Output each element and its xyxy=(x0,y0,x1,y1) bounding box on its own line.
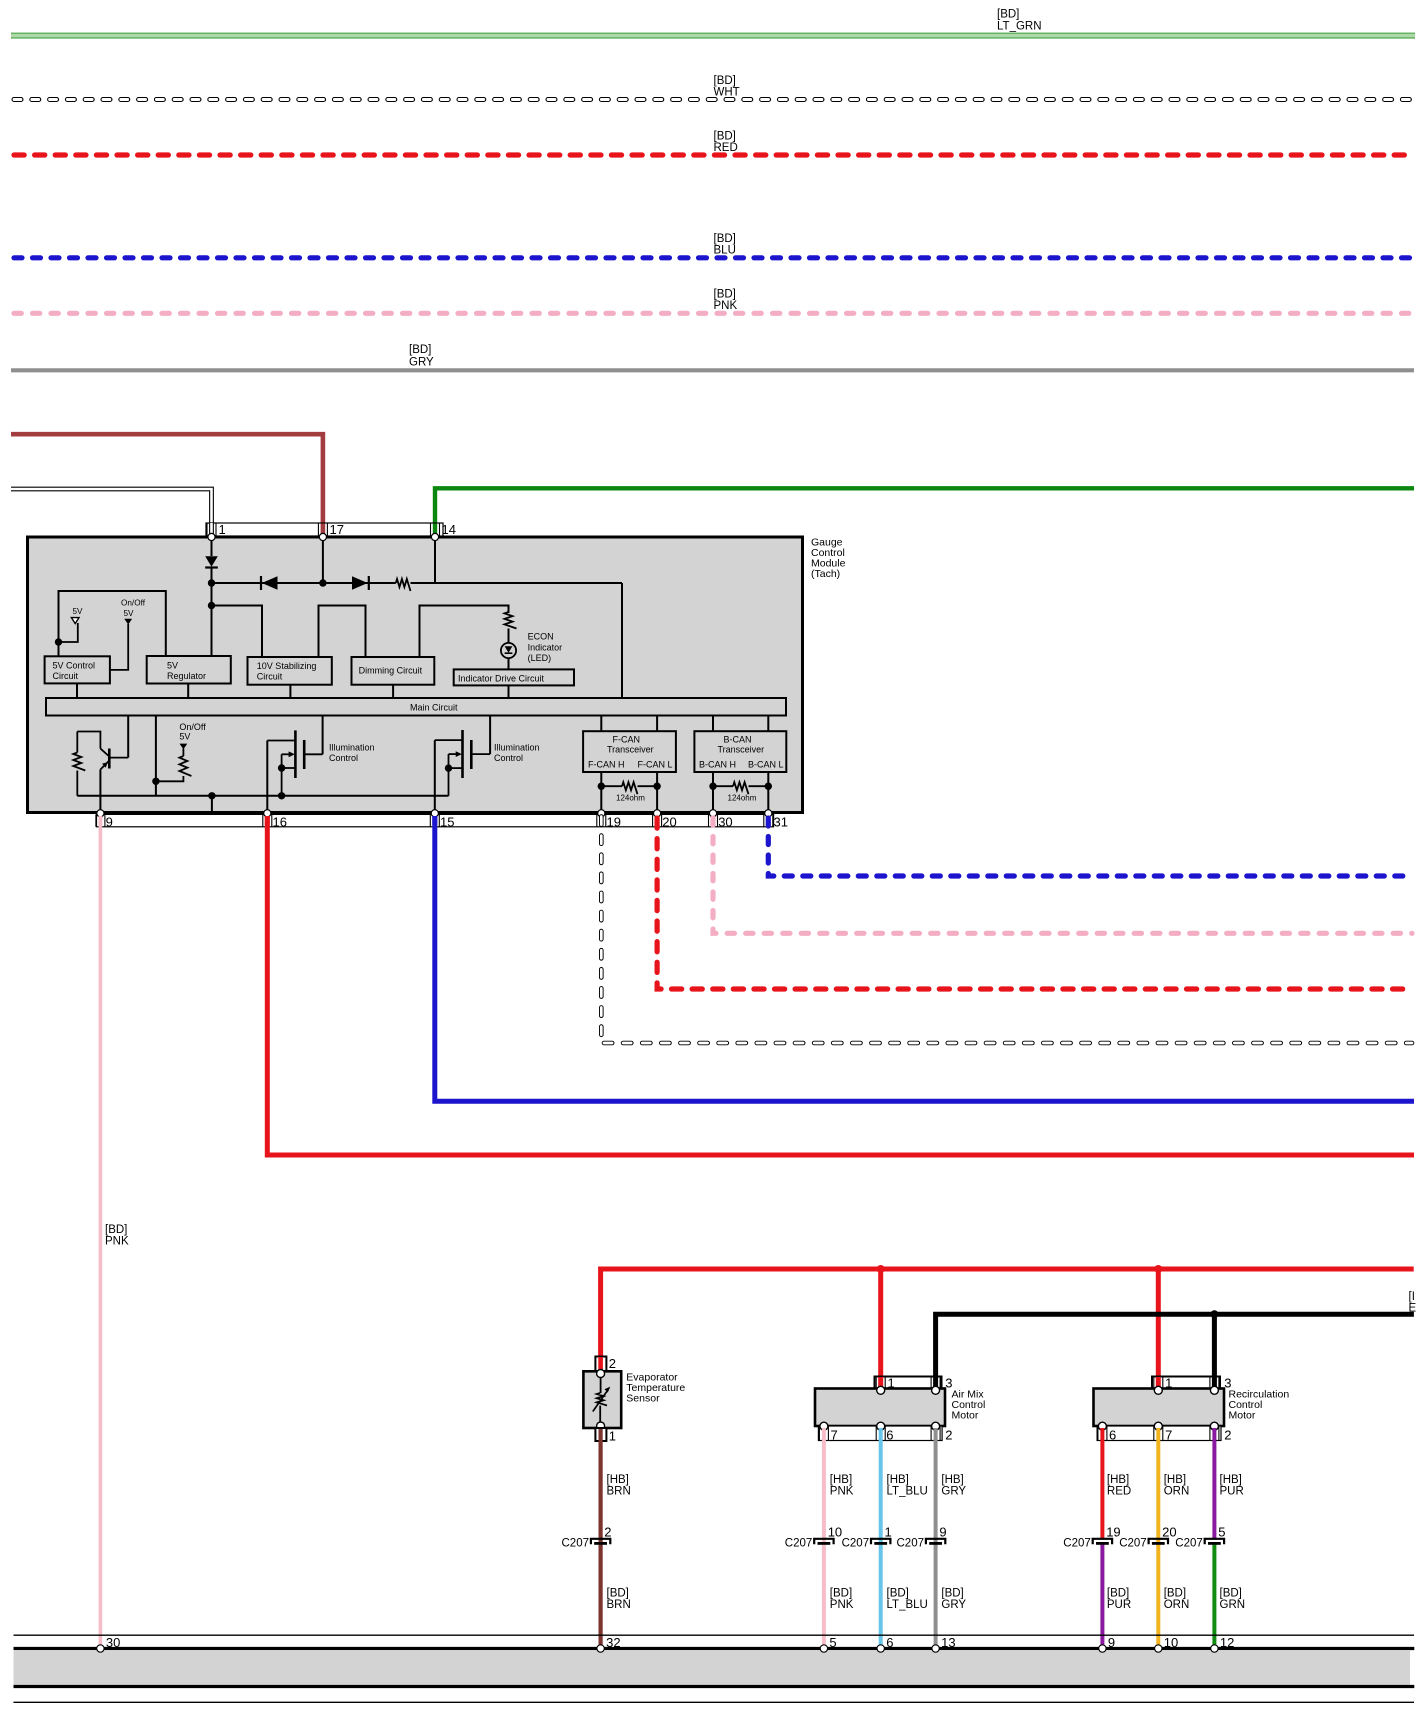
wire red stub pin16 xyxy=(265,816,270,825)
node [BD] PNK label2 xyxy=(830,1588,854,1612)
svg-text:Motor: Motor xyxy=(1229,1410,1256,1422)
wire B-CAN H to pin 30 xyxy=(712,772,714,813)
svg-text:[BD]: [BD] xyxy=(714,289,736,301)
box 10V Stabilizing Circuit xyxy=(248,657,332,685)
node [HB] GRY label xyxy=(941,1474,966,1498)
wire Q1 emitter to pin 9 xyxy=(99,770,101,814)
diode D2 pointing left xyxy=(261,576,278,590)
component Air Mix Control Motor box xyxy=(815,1389,945,1427)
svg-text:Control: Control xyxy=(329,753,358,763)
svg-text:[BD]: [BD] xyxy=(714,131,736,143)
svg-text:On/Off: On/Off xyxy=(179,722,206,732)
node Evaporator Temperature Sensor label xyxy=(626,1372,685,1405)
svg-text:30: 30 xyxy=(106,1635,120,1650)
connector bottom strip line xyxy=(14,1634,1415,1636)
node [BD] PUR label xyxy=(1107,1588,1131,1612)
module bottom AC unit bottom border xyxy=(14,1685,1415,1688)
wire [HB] RED recirculation pin 6 xyxy=(1100,1428,1104,1539)
svg-text:PNK: PNK xyxy=(714,300,738,312)
resistor 124ohm B-CAN xyxy=(709,782,772,802)
svg-text:[I: [I xyxy=(1409,1291,1415,1303)
wire pin 14 internal drop xyxy=(434,540,436,583)
svg-text:RED: RED xyxy=(1107,1486,1131,1498)
pin 30 circle and number xyxy=(709,810,732,830)
svg-text:[BD]: [BD] xyxy=(887,1588,909,1600)
svg-text:10: 10 xyxy=(828,1525,842,1540)
wire green stub pin 14 in band xyxy=(433,524,437,536)
svg-text:PNK: PNK xyxy=(830,1486,854,1498)
wire pin 17 internal drop xyxy=(322,540,324,583)
box Indicator Drive Circuit xyxy=(454,669,574,685)
node ECON Indicator (LED) label xyxy=(528,631,563,663)
svg-text:BLU: BLU xyxy=(714,245,736,257)
node clipped label right edge xyxy=(1409,1291,1417,1315)
svg-text:30: 30 xyxy=(718,814,732,829)
svg-text:10V Stabilizing: 10V Stabilizing xyxy=(257,661,317,671)
node junction dot pin1 chain xyxy=(208,579,215,586)
thermistor symbol xyxy=(593,1377,611,1422)
pin 9 circle and number xyxy=(97,810,113,830)
module bottom AC unit body xyxy=(14,1650,1411,1685)
transistor MOSFET M2 illumination xyxy=(435,716,490,814)
wire [HB] GRY air mix pin 2 xyxy=(934,1428,938,1647)
node [BD] WHT label xyxy=(714,75,740,99)
pin 16 circle and number xyxy=(264,810,287,830)
svg-text:Motor: Motor xyxy=(952,1410,979,1422)
wire pin1 to diode D1 xyxy=(211,540,213,556)
wire red from pin 16 to right edge xyxy=(267,816,1414,1155)
svg-text:Transceiver: Transceiver xyxy=(718,745,765,755)
pin 5 circle bottom bus xyxy=(820,1635,836,1652)
pin 13 circle bottom bus xyxy=(932,1635,956,1652)
node Illumination Control label 1 xyxy=(329,743,375,764)
svg-text:ORN: ORN xyxy=(1164,1599,1190,1611)
pin 30 circle bottom bus xyxy=(97,1635,121,1652)
connector C207 pin 10 xyxy=(785,1525,842,1550)
wire link Dimming to ECON resistor xyxy=(420,606,509,658)
wire F-CAN H to pin 19 xyxy=(600,772,602,813)
wire [BD] RED horizontal dashed xyxy=(14,152,1412,157)
svg-text:19: 19 xyxy=(607,814,621,829)
pin 19 circle and number xyxy=(598,810,621,830)
node [BD] ORN label xyxy=(1164,1588,1190,1612)
node [BD] LT_GRN label xyxy=(997,9,1042,33)
wire 5V control to main xyxy=(76,683,78,698)
wire branch to 10V stabilizing xyxy=(212,606,263,658)
box B-CAN Transceiver xyxy=(694,731,786,772)
svg-text:1: 1 xyxy=(609,1429,616,1444)
svg-text:B-CAN: B-CAN xyxy=(724,735,752,745)
svg-text:15: 15 xyxy=(440,814,454,829)
svg-text:1: 1 xyxy=(219,522,226,537)
svg-text:[BD]: [BD] xyxy=(714,233,736,245)
svg-text:B-CAN L: B-CAN L xyxy=(748,760,784,770)
pin 31 circle and number xyxy=(765,810,788,830)
svg-text:F-CAN L: F-CAN L xyxy=(638,760,673,770)
svg-text:2: 2 xyxy=(604,1525,611,1540)
connector C207 pin 2 xyxy=(562,1525,612,1550)
pin 32 circle bottom bus xyxy=(597,1635,621,1652)
node black bus junction recirculation xyxy=(1210,1310,1218,1388)
svg-text:[HB]: [HB] xyxy=(607,1474,629,1486)
wire maroon stub pin 17 in band xyxy=(321,524,326,536)
svg-text:BRN: BRN xyxy=(607,1486,631,1498)
svg-text:PNK: PNK xyxy=(830,1599,854,1611)
node junction dot pin17 chain xyxy=(319,579,326,586)
wire pink dashed from pin 30 xyxy=(713,818,1412,933)
pin circles recirculation bottom xyxy=(1098,1422,1218,1430)
svg-text:2: 2 xyxy=(609,1356,616,1371)
resistor R1 in diode chain xyxy=(396,579,411,591)
svg-text:LT_BLU: LT_BLU xyxy=(887,1486,928,1498)
wire main to B-CAN verticals xyxy=(713,716,768,732)
svg-text:LT_BLU: LT_BLU xyxy=(887,1599,928,1611)
svg-text:F-CAN: F-CAN xyxy=(613,735,641,745)
wire 5V regulator to main xyxy=(187,684,189,699)
transistor Q1 PNP xyxy=(100,716,128,770)
svg-text:LT_GRN: LT_GRN xyxy=(997,21,1042,33)
node [HB] LT_BLU label xyxy=(887,1474,928,1498)
resistor 124ohm F-CAN xyxy=(598,782,661,802)
node junction dot 5V control xyxy=(55,638,62,645)
wire maroon supply to pin 17 xyxy=(11,434,323,535)
wire 10V to main xyxy=(289,685,291,698)
svg-text:Circuit: Circuit xyxy=(53,671,79,681)
box Dimming Circuit xyxy=(352,657,435,685)
svg-text:13: 13 xyxy=(941,1635,955,1650)
svg-text:5: 5 xyxy=(1218,1525,1225,1540)
svg-text:124ohm: 124ohm xyxy=(728,793,757,802)
node [HB] PNK label xyxy=(830,1474,854,1498)
connector stub pin 1 evaporator xyxy=(595,1428,616,1444)
svg-text:9: 9 xyxy=(1108,1635,1115,1650)
connector top band recirculation pins 1 3 xyxy=(1152,1375,1232,1390)
pin 15 circle and number xyxy=(431,810,454,830)
svg-text:124ohm: 124ohm xyxy=(616,793,645,802)
node [BD] PNK label xyxy=(714,289,738,313)
LED ECON indicator symbol xyxy=(501,643,516,670)
pin circles evaporator xyxy=(597,1370,605,1431)
svg-text:31: 31 xyxy=(774,814,788,829)
svg-text:5V: 5V xyxy=(73,607,84,616)
svg-text:Regulator: Regulator xyxy=(167,671,206,681)
svg-text:C207: C207 xyxy=(785,1538,813,1550)
svg-text:20: 20 xyxy=(662,814,676,829)
node On/Off 5V label second with arrow xyxy=(179,722,206,756)
svg-text:7: 7 xyxy=(1165,1427,1172,1442)
node Recirculation Control Motor label xyxy=(1229,1389,1290,1422)
node Illumination Control label 2 xyxy=(494,743,540,764)
diode D1 down below pin 1 xyxy=(205,556,218,583)
svg-text:6: 6 xyxy=(1109,1427,1116,1442)
node [BD] GRY label xyxy=(409,344,434,369)
wire blue stub pin15 xyxy=(432,816,437,825)
node [BD] RED label xyxy=(714,131,738,155)
svg-text:2: 2 xyxy=(1224,1427,1231,1442)
connector top band air mix pins 1 3 xyxy=(875,1375,953,1390)
connector stub pin 2 evaporator xyxy=(595,1356,616,1371)
connector C207 pin 20 xyxy=(1119,1525,1176,1550)
node On/Off 5V label first with arrow xyxy=(110,599,146,670)
svg-text:9: 9 xyxy=(939,1525,946,1540)
svg-text:Dimming Circuit: Dimming Circuit xyxy=(359,665,423,675)
svg-text:GRY: GRY xyxy=(941,1599,966,1611)
svg-text:5: 5 xyxy=(829,1635,836,1650)
svg-text:2: 2 xyxy=(945,1427,952,1442)
box 5V Control Circuit xyxy=(45,656,110,683)
node [HB] ORN label xyxy=(1164,1474,1190,1498)
svg-text:6: 6 xyxy=(886,1635,893,1650)
wire indicator drive to main xyxy=(508,685,510,698)
wire pink stub pin9 xyxy=(99,816,103,825)
box F-CAN Transceiver xyxy=(583,731,676,772)
svg-text:17: 17 xyxy=(330,522,344,537)
node [HB] RED label xyxy=(1107,1474,1131,1498)
node junction dot x156 y781 xyxy=(152,778,159,785)
node 5V label with arrow xyxy=(59,607,84,642)
pin 20 circle and number xyxy=(654,810,677,830)
wire main to bias dot vertical xyxy=(155,716,157,796)
svg-text:[BD]: [BD] xyxy=(105,1224,127,1236)
svg-text:[BD]: [BD] xyxy=(1220,1588,1242,1600)
svg-text:C207: C207 xyxy=(1119,1538,1147,1550)
svg-text:[BD]: [BD] xyxy=(997,9,1019,21)
svg-text:B-CAN H: B-CAN H xyxy=(699,760,736,770)
svg-text:14: 14 xyxy=(442,522,456,537)
node junction dot M2 xyxy=(445,764,452,771)
connector bottom band pins 9 16 15 19 20 30 31 xyxy=(96,814,774,826)
wire F-CAN L to pin 20 xyxy=(656,772,658,813)
svg-text:Indicator: Indicator xyxy=(528,642,563,652)
wire B-CAN L to pin 31 xyxy=(767,772,769,813)
connector C207 pin 5 xyxy=(1175,1525,1225,1550)
svg-text:PUR: PUR xyxy=(1220,1486,1244,1498)
svg-text:32: 32 xyxy=(606,1635,620,1650)
wire black feed bus bottom xyxy=(936,1314,1414,1388)
wire white dashed from pin 19 xyxy=(601,817,1412,1044)
svg-text:5V: 5V xyxy=(124,609,135,618)
wire pin1 branch down to 5V Regulator xyxy=(211,583,213,656)
svg-text:9: 9 xyxy=(106,814,113,829)
wire green to pin 14 xyxy=(435,488,1414,535)
svg-text:5V: 5V xyxy=(179,732,190,742)
node red bus junction recirculation xyxy=(1154,1265,1162,1388)
pin 9 circle bottom bus xyxy=(1099,1635,1115,1652)
svg-text:(Tach): (Tach) xyxy=(811,568,840,580)
svg-text:10: 10 xyxy=(1164,1635,1178,1650)
svg-text:5V: 5V xyxy=(167,660,178,670)
node red bus junction air mix xyxy=(877,1265,885,1388)
wire red feed bus bottom xyxy=(601,1269,1414,1357)
svg-text:1: 1 xyxy=(885,1525,892,1540)
node Air Mix Control Motor label xyxy=(952,1389,986,1422)
svg-text:(LED): (LED) xyxy=(528,653,552,663)
box Main Circuit xyxy=(46,698,786,716)
wire chain down to main circuit xyxy=(621,583,623,698)
svg-text:GRN: GRN xyxy=(1220,1599,1246,1611)
svg-text:12: 12 xyxy=(1220,1635,1234,1650)
wire horizontal diode chain y583 xyxy=(212,582,623,584)
svg-text:[BD]: [BD] xyxy=(1107,1588,1129,1600)
resistor R2 ECON led feed xyxy=(505,612,517,643)
connector C207 pin 1 xyxy=(842,1525,892,1550)
wire [BD] GRY horizontal xyxy=(11,368,1414,372)
svg-text:[BD]: [BD] xyxy=(409,344,431,356)
svg-text:Illumination: Illumination xyxy=(329,743,375,753)
node [BD] GRN label xyxy=(1220,1588,1246,1612)
node Gauge Control Module (Tach) label xyxy=(811,536,846,580)
wire 5V control to regulator link xyxy=(59,591,166,656)
wire [HB] PUR recirculation pin 2 xyxy=(1212,1428,1216,1539)
wire white supply to pin 1 xyxy=(11,489,212,523)
connector bottom band recirculation pins 6 7 2 xyxy=(1097,1426,1231,1442)
svg-text:PUR: PUR xyxy=(1107,1599,1131,1611)
svg-text:F-CAN H: F-CAN H xyxy=(588,760,625,770)
svg-text:16: 16 xyxy=(273,814,287,829)
diode D3 pointing right xyxy=(352,576,369,590)
svg-text:[HB]: [HB] xyxy=(1107,1474,1129,1486)
svg-text:Indicator Drive Circuit: Indicator Drive Circuit xyxy=(458,673,545,683)
connector top band pins 1 17 14 xyxy=(206,523,443,536)
svg-text:ORN: ORN xyxy=(1164,1486,1190,1498)
wire [BD] BLU horizontal dashed xyxy=(14,255,1412,260)
connector C207 pin 9 xyxy=(897,1525,947,1550)
wire [HB] LT_BLU air mix pin 6 xyxy=(879,1428,883,1647)
wire [BD] PUR below C207 xyxy=(1100,1543,1104,1647)
component Evaporator Temperature Sensor box xyxy=(583,1371,621,1428)
connector C207 pin 19 xyxy=(1063,1525,1120,1550)
pin 6 circle bottom bus xyxy=(877,1635,893,1652)
svg-text:[HB]: [HB] xyxy=(1164,1474,1186,1486)
svg-text:7: 7 xyxy=(831,1427,838,1442)
svg-text:[BD]: [BD] xyxy=(830,1588,852,1600)
svg-text:On/Off: On/Off xyxy=(121,599,146,608)
svg-text:5V Control: 5V Control xyxy=(53,660,96,670)
node [BD] BRN label xyxy=(607,1588,631,1612)
svg-text:[BD]: [BD] xyxy=(607,1588,629,1600)
node [BD] BLU label xyxy=(714,233,736,257)
svg-text:C207: C207 xyxy=(1063,1538,1091,1550)
node [HB] PUR label xyxy=(1220,1474,1244,1498)
svg-text:WHT: WHT xyxy=(714,87,740,99)
svg-text:RED: RED xyxy=(714,142,738,154)
svg-text:Circuit: Circuit xyxy=(257,672,283,682)
svg-text:C207: C207 xyxy=(562,1538,590,1550)
svg-text:PNK: PNK xyxy=(105,1236,129,1248)
node [HB] BRN label xyxy=(607,1474,631,1498)
wire blue dashed from pin 31 xyxy=(768,818,1412,876)
svg-text:[HB]: [HB] xyxy=(887,1474,909,1486)
wire [BD] PNK horizontal dashed xyxy=(14,311,1412,316)
svg-text:[HB]: [HB] xyxy=(1220,1474,1242,1486)
transistor MOSFET M1 illumination xyxy=(267,716,322,814)
node [BD] PNK label mid xyxy=(105,1224,129,1248)
resistor R4 on/off pulldown xyxy=(156,756,192,781)
svg-text:[HB]: [HB] xyxy=(830,1474,852,1486)
pin circles air mix top xyxy=(877,1386,940,1394)
pin 17 circle and number xyxy=(319,522,344,541)
wire [BD] WHT horizontal dashed xyxy=(14,97,1412,102)
pin 14 circle and number xyxy=(431,522,456,541)
node junction dots M1 xyxy=(278,764,285,799)
svg-text:BRN: BRN xyxy=(607,1599,631,1611)
svg-text:[HB]: [HB] xyxy=(941,1474,963,1486)
pin 1 circle and number xyxy=(208,522,226,541)
wire [BD] LT_GRN horizontal xyxy=(11,33,1415,39)
wire red dashed from pin 20 xyxy=(657,818,1412,989)
svg-text:Illumination: Illumination xyxy=(494,743,540,753)
svg-text:C207: C207 xyxy=(842,1538,870,1550)
svg-text:[BD]: [BD] xyxy=(941,1588,963,1600)
svg-text:E: E xyxy=(1409,1303,1417,1315)
svg-text:[BD]: [BD] xyxy=(714,75,736,87)
box 5V Regulator xyxy=(147,656,231,684)
svg-text:Main Circuit: Main Circuit xyxy=(410,703,458,713)
svg-text:C207: C207 xyxy=(897,1538,925,1550)
pin 12 circle bottom bus xyxy=(1211,1635,1235,1652)
wire [HB] ORN recirculation pin 7 xyxy=(1156,1428,1160,1647)
wire resistor top link xyxy=(77,732,100,749)
wire [BD] GRN below C207 xyxy=(1212,1543,1216,1647)
wire [HB] PNK air mix pin 7 xyxy=(822,1428,826,1647)
module Gauge Control Module (Tach) box xyxy=(28,537,803,813)
svg-text:Control: Control xyxy=(494,753,523,763)
svg-text:GRY: GRY xyxy=(941,1486,966,1498)
wire blue from pin 15 to right edge xyxy=(435,816,1414,1101)
svg-text:Sensor: Sensor xyxy=(626,1393,660,1405)
wire [BD] PNK from pin 9 long vertical xyxy=(99,816,103,1647)
svg-text:Transceiver: Transceiver xyxy=(607,745,654,755)
pin circles recirculation top xyxy=(1154,1386,1218,1394)
wire dimming to main xyxy=(392,685,394,698)
node [BD] GRY label2 xyxy=(941,1588,966,1612)
module bottom AC unit top border xyxy=(14,1647,1415,1650)
wire link 10V to Dimming xyxy=(319,606,366,658)
component Recirculation Control Motor box xyxy=(1094,1389,1225,1427)
wire main to F-CAN verticals xyxy=(601,716,657,732)
svg-text:ECON: ECON xyxy=(528,631,554,641)
pin circles air mix bottom xyxy=(820,1422,940,1430)
wire internal ground bus xyxy=(77,795,448,797)
svg-text:6: 6 xyxy=(886,1427,893,1442)
node junction dot x211 y605 xyxy=(208,602,215,609)
svg-text:GRY: GRY xyxy=(409,357,434,369)
connector bottom band air mix pins 7 6 2 xyxy=(818,1426,952,1442)
resistor R3 base bias xyxy=(73,732,85,796)
node [BD] LT_BLU label xyxy=(887,1588,928,1612)
svg-text:C207: C207 xyxy=(1175,1538,1203,1550)
wire white stub pin 1 in band xyxy=(209,523,214,535)
wire [HB] BRN evaporator down xyxy=(598,1429,602,1647)
svg-text:[BD]: [BD] xyxy=(1164,1588,1186,1600)
wire bottom separator line xyxy=(14,1701,1415,1703)
pin 10 circle bottom bus xyxy=(1155,1635,1179,1652)
node junction dot bus x212 xyxy=(208,792,215,811)
